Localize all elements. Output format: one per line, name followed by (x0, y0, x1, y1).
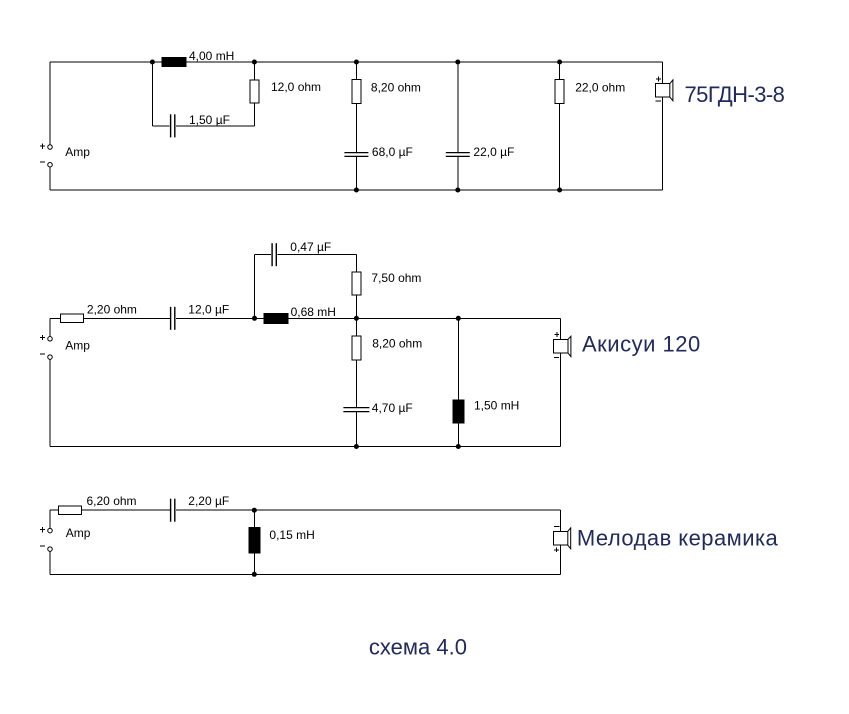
terminal: Amp + circuit3 (48, 528, 53, 533)
svg-text:12,0 ohm: 12,0 ohm (271, 80, 321, 94)
symbol: minus sign at Amp circuit3 (40, 545, 45, 547)
svg-text:схема 4.0: схема 4.0 (369, 635, 467, 660)
wire: upper branch down to R5 circuit2 (355, 255, 357, 272)
wire: main bus right segment circuit3 (176, 509, 561, 511)
capacitor C6 4,70 uF plates (343, 408, 369, 412)
svg-text:12,0 µF: 12,0 µF (188, 303, 229, 317)
wire: speaker SP3 to bottom bus circuit3 (560, 545, 562, 574)
svg-text:7,50 ohm: 7,50 ohm (371, 271, 421, 285)
wire: main bus left segment circuit3 (50, 509, 170, 511)
node: junction E top bus circuit1 (557, 60, 562, 65)
wire: node B down to R1 circuit1 (253, 62, 255, 80)
speaker SP1 body (655, 84, 670, 97)
svg-text:0,15 mH: 0,15 mH (269, 528, 314, 542)
resistor R3 22,0 ohm (555, 80, 564, 104)
wire: R1 bottom to RC branch circuit1 (253, 103, 255, 126)
wire: bottom bus circuit1 (50, 189, 663, 191)
capacitor C1 1,50 uF plates (171, 114, 175, 137)
wire: left lead from - terminal down to bottom bus circuit1 (49, 167, 51, 190)
wire: L4 bottom to bottom bus circuit3 (253, 553, 255, 574)
capacitor C4 12,0 uF plates (171, 307, 175, 330)
wire: RC branch horizontal right segment circuit1 (176, 125, 255, 127)
svg-text:4,00 mH: 4,00 mH (189, 49, 234, 63)
speaker SP3 cone (568, 528, 571, 549)
wire: node C down to R2 circuit1 (355, 62, 357, 80)
svg-text:68,0 µF: 68,0 µF (372, 145, 413, 159)
symbol: minus sign at SP3 (554, 526, 559, 528)
wire: upper branch horizontal left segment circuit2 (255, 254, 272, 256)
wire: right lead top bus to speaker SP1 (662, 62, 664, 84)
resistor R4 2,20 ohm (60, 314, 83, 323)
node: junction F main bus circuit2 (252, 316, 257, 321)
svg-text:Amp: Amp (65, 145, 90, 159)
node: junction D top bus circuit1 (455, 60, 460, 65)
inductor L1 4,00 mH (162, 58, 186, 67)
symbol: minus sign at SP1 (656, 100, 661, 102)
wire: L3 bottom to bottom bus circuit2 (457, 423, 459, 447)
capacitor C5 0,47 uF plates (272, 243, 276, 266)
wire: left lead from - terminal down to bottom bus circuit3 (49, 552, 51, 575)
svg-text:2,20 ohm: 2,20 ohm (87, 303, 137, 317)
wire: top bus circuit1 (50, 61, 663, 63)
wire: right lead main bus to speaker SP2 (559, 318, 561, 339)
svg-text:8,20 ohm: 8,20 ohm (371, 80, 421, 94)
inductor L2 0,68 mH (264, 313, 288, 323)
wire: speaker SP2 to bottom bus circuit2 (559, 353, 561, 446)
wire: left lead from - terminal down to bottom bus circuit2 (49, 360, 51, 447)
node: junction G main bus circuit2 (354, 316, 359, 321)
symbol: plus sign at Amp circuit1 (40, 144, 45, 149)
symbol: plus sign at Amp circuit2 (40, 335, 45, 340)
wire: C3 bottom to bottom bus circuit1 (457, 157, 459, 190)
wire: bottom bus circuit3 (50, 573, 561, 575)
wire: speaker SP1 to bottom bus (662, 97, 664, 190)
svg-text:6,20 ohm: 6,20 ohm (87, 494, 137, 508)
node: junction C6 bottom bus circuit2 (354, 444, 359, 449)
node: junction C3 bottom bus circuit1 (455, 188, 460, 193)
symbol: plus sign at SP3 (554, 547, 559, 552)
speaker SP1 cone (670, 80, 673, 101)
svg-text:75ГДН-3-8: 75ГДН-3-8 (685, 82, 785, 107)
svg-text:Amp: Amp (66, 526, 91, 540)
wire: node G down to R6 circuit2 (355, 318, 357, 336)
symbol: minus sign at SP2 (554, 356, 559, 358)
svg-text:2,20 µF: 2,20 µF (188, 494, 229, 508)
wire: down from node A to RC branch circuit1 (151, 62, 153, 126)
resistor R2 8,20 ohm (352, 80, 361, 104)
wire: node I down to L4 circuit3 (253, 510, 255, 527)
symbol: minus sign at Amp circuit2 (40, 353, 45, 355)
svg-text:0,47 µF: 0,47 µF (290, 240, 331, 254)
wire: R6 bottom to C6 circuit2 (355, 360, 357, 408)
resistor R1 12,0 ohm (250, 80, 259, 103)
inductor L4 0,15 mH (249, 528, 260, 553)
symbol: plus sign at Amp circuit3 (40, 527, 45, 532)
wire: node D down to C3 circuit1 (457, 62, 459, 152)
svg-text:Amp: Amp (65, 338, 90, 352)
node: junction A top bus left circuit1 (150, 60, 155, 65)
svg-text:22,0 ohm: 22,0 ohm (575, 80, 625, 94)
svg-text:1,50 mH: 1,50 mH (474, 398, 519, 412)
svg-text:1,50 µF: 1,50 µF (189, 113, 230, 127)
symbol: plus sign at SP2 (554, 332, 559, 337)
node: junction B top bus right of L1 circuit1 (252, 60, 257, 65)
terminal: Amp + circuit2 (48, 337, 53, 342)
wire: main bus left segment circuit2 (50, 317, 170, 319)
capacitor C2 68,0 uF plates (344, 153, 368, 157)
resistor R6 8,20 ohm (352, 336, 361, 360)
wire: upper branch horizontal right segment circuit2 (277, 254, 356, 256)
terminal: Amp - circuit2 (48, 355, 53, 360)
inductor L3 1,50 mH (453, 400, 464, 423)
capacitor C7 2,20 uF plates (171, 499, 175, 522)
wire: right lead main bus to speaker SP3 (560, 510, 562, 531)
wire: C2 bottom to bottom bus circuit1 (355, 157, 357, 190)
terminal: Amp - circuit3 (48, 547, 53, 552)
symbol: minus sign at Amp circuit1 (40, 161, 45, 163)
svg-text:4,70 µF: 4,70 µF (372, 401, 413, 415)
resistor R5 7,50 ohm (352, 272, 361, 295)
wire: bottom bus circuit2 (50, 446, 560, 448)
svg-text:Акисуи 120: Акисуи 120 (582, 331, 701, 356)
terminal: Amp + circuit1 (48, 145, 53, 150)
terminal: Amp - circuit1 (48, 162, 53, 167)
node: junction L4 bottom bus circuit3 (252, 572, 257, 577)
wire: left lead from + terminal up to main bus circuit3 (49, 510, 51, 528)
wire: C6 bottom to bottom bus circuit2 (355, 412, 357, 447)
node: junction I main bus circuit3 (252, 508, 257, 513)
node: junction C2 bottom bus circuit1 (354, 188, 359, 193)
capacitor C3 22,0 uF plates (446, 153, 470, 157)
node: junction C top bus circuit1 (354, 60, 359, 65)
wire: R5 bottom to main bus circuit2 (355, 295, 357, 318)
wire: left lead from + terminal up to top bus circuit1 (49, 62, 51, 144)
svg-text:0,68 mH: 0,68 mH (291, 305, 336, 319)
wire: node H down to L3 circuit2 (457, 318, 459, 400)
speaker SP3 body (553, 531, 568, 545)
wire: left lead from + terminal up to main bus circuit2 (49, 318, 51, 336)
svg-text:8,20 ohm: 8,20 ohm (372, 336, 422, 350)
wire: R3 bottom to bottom bus circuit1 (559, 104, 561, 190)
node: junction R3 bottom bus circuit1 (557, 188, 562, 193)
resistor R7 6,20 ohm (58, 506, 81, 515)
speaker SP2 body (554, 339, 569, 353)
svg-text:22,0 µF: 22,0 µF (473, 145, 514, 159)
symbol: plus sign at SP1 (656, 77, 661, 82)
wire: R2 bottom to C2 circuit1 (355, 104, 357, 153)
wire: node F up to upper branch circuit2 (254, 255, 256, 319)
svg-text:Мелодав керамика: Мелодав керамика (577, 525, 779, 550)
node: junction L3 bottom bus circuit2 (456, 444, 461, 449)
wire: node E down to R3 circuit1 (559, 62, 561, 80)
wire: main bus right segment circuit2 (176, 317, 561, 319)
wire: RC branch horizontal left segment circuit1 (152, 125, 169, 127)
node: junction H main bus circuit2 (456, 316, 461, 321)
speaker SP2 cone (568, 336, 571, 356)
